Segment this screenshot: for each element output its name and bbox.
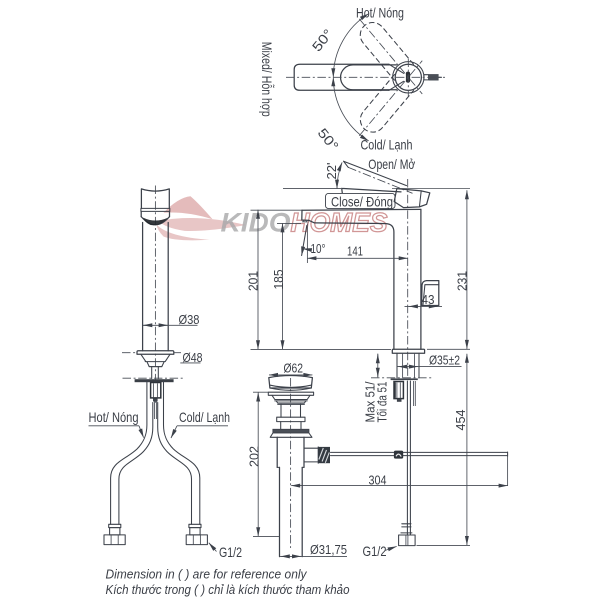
front view spout bowl arc — [141, 217, 169, 225]
threaded shank — [397, 353, 419, 378]
bottom extension line (base top) — [251, 348, 392, 350]
spout underside and column left edge — [309, 220, 394, 349]
svg-text:202: 202 — [248, 446, 262, 467]
svg-text:Close/ Đóng: Close/ Đóng — [331, 193, 393, 209]
front view short rod — [155, 402, 157, 420]
dimension 141 — [307, 245, 407, 259]
svg-text:Ø38: Ø38 — [179, 313, 200, 327]
front view head outline — [141, 189, 170, 217]
svg-text:10°: 10° — [311, 242, 326, 256]
10 deg leader arc — [303, 249, 307, 250]
angle arc 50 deg upper — [333, 14, 368, 78]
spout tip face — [302, 210, 309, 220]
counter deck line (side view) — [371, 377, 433, 379]
svg-text:G1/2: G1/2 — [363, 543, 387, 559]
svg-text:G1/2: G1/2 — [219, 544, 242, 560]
top view lever handle (plan, closed) — [341, 65, 397, 90]
top view handle rotated to cold (dashed, -50) — [350, 53, 432, 144]
drain side port — [304, 447, 330, 463]
top view valve cap circles — [393, 62, 424, 93]
aerator ticks — [302, 220, 309, 222]
horizontal drain lever rod — [331, 452, 508, 486]
faucet body top line / 201 extension — [302, 208, 421, 211]
hot hose (left) — [111, 381, 153, 525]
top view spout body (plan) — [294, 64, 403, 90]
drain centerline — [290, 378, 292, 548]
handle lower block 43 — [422, 281, 439, 306]
svg-text:Hot/ Nóng: Hot/ Nóng — [89, 409, 139, 425]
front view rod guide block — [153, 399, 158, 402]
10 deg spray line — [302, 226, 307, 256]
pull rod (side view) — [407, 381, 410, 535]
pull rod tip connector — [401, 524, 412, 535]
drain body — [277, 437, 304, 467]
top view centerline vertical — [407, 59, 409, 97]
drain bell — [270, 433, 312, 437]
dimension 454 — [417, 354, 471, 546]
svg-text:304: 304 — [369, 473, 387, 487]
svg-text:Cold/ Lạnh: Cold/ Lạnh — [179, 409, 230, 425]
svg-text:Mixed/ Hỗn hợp: Mixed/ Hỗn hợp — [259, 42, 275, 117]
under-deck lock nut (side view) — [394, 382, 403, 399]
svg-text:KIDO: KIDO — [221, 208, 291, 238]
pull rod end nut G1/2 (side view) — [399, 535, 416, 546]
svg-text:22': 22' — [325, 163, 339, 180]
extension line of closed lever top — [283, 188, 341, 190]
open lever top edge (solid) — [344, 161, 407, 185]
front view base skirt — [141, 354, 170, 366]
deck washer (side view) — [391, 378, 418, 380]
svg-text:Cold/ Lạnh: Cold/ Lạnh — [361, 137, 413, 153]
svg-text:185: 185 — [272, 269, 286, 289]
watermark logo swoosh — [157, 196, 247, 240]
svg-text:141: 141 — [347, 245, 363, 259]
cold hose end fittings — [186, 524, 207, 544]
front view base flange — [137, 351, 174, 355]
drain body step — [277, 466, 304, 468]
drain collar — [277, 417, 305, 421]
drain lock ring — [273, 429, 309, 433]
front view spout dark crescent — [143, 218, 168, 226]
drain tube lower — [280, 467, 303, 556]
svg-text:Ø35±2: Ø35±2 — [429, 353, 460, 367]
dimension dia 31,75 — [280, 543, 347, 557]
front view shank — [152, 367, 159, 379]
dimension 185 — [272, 223, 301, 349]
cold hose (right) — [158, 381, 200, 525]
drain pop-up cap — [269, 376, 313, 391]
dimension max 51 — [363, 354, 389, 423]
dimension 202 — [248, 392, 280, 536]
label dia 48 — [180, 351, 202, 365]
angle arc 50 deg lower — [333, 77, 368, 141]
drain cap flange — [268, 392, 313, 395]
svg-text:Ø62: Ø62 — [284, 362, 304, 376]
hot hose end fittings — [104, 524, 125, 544]
top view handle rotated to hot (dashed, +50) — [350, 11, 432, 102]
svg-text:43: 43 — [422, 293, 435, 307]
10 deg vertical reference — [306, 224, 308, 264]
svg-text:201: 201 — [247, 271, 261, 291]
dimension 304 — [291, 473, 507, 487]
front view body cylinder — [143, 223, 169, 351]
base flange (side view) — [392, 349, 424, 353]
rod guide block (side view) — [397, 399, 402, 402]
svg-text:Open/ Mở: Open/ Mở — [368, 156, 415, 172]
label Cold/Lanh (front) — [171, 409, 230, 438]
label G1/2 (front) — [209, 543, 242, 560]
faucet column centerline — [407, 179, 409, 380]
drain tube upper — [281, 422, 301, 430]
svg-text:Dimension in ( ) are for refer: Dimension in ( ) are for reference only — [106, 566, 308, 581]
dimension dia 62 — [269, 362, 312, 376]
label Hot/Nong (front) — [89, 409, 144, 438]
front view deck line — [123, 377, 185, 379]
close label box — [326, 193, 396, 208]
label G1/2 (side view) — [363, 543, 397, 559]
lever head — [394, 189, 430, 208]
top view centerline horizontal — [286, 76, 445, 78]
faucet column right edge — [420, 209, 422, 349]
top view aerator stub — [424, 74, 442, 80]
front view centerline — [154, 186, 156, 404]
drain neck — [281, 404, 301, 417]
rod clamp screw — [394, 451, 403, 459]
top view lever slot mark — [406, 72, 410, 83]
front view deck washer — [135, 379, 174, 382]
dimension 43 — [405, 293, 443, 307]
open lever axis (dash-dot) — [348, 167, 412, 193]
drain upper tapers — [272, 395, 310, 404]
dimension 231 — [392, 189, 470, 350]
svg-text:454: 454 — [454, 409, 468, 430]
svg-text:Tối đa 51: Tối đa 51 — [375, 381, 389, 422]
dimension dia 38 — [143, 313, 200, 327]
watermark logo text — [221, 208, 388, 238]
svg-text:Ø31,75: Ø31,75 — [310, 543, 347, 557]
flange level construction line — [122, 352, 181, 354]
hose lines below deck (side view) — [414, 381, 416, 406]
angle arc 22 deg — [337, 162, 342, 188]
front view under-deck nut — [151, 383, 161, 398]
svg-text:231: 231 — [456, 271, 470, 291]
svg-text:Kích thước trong ( ) chỉ là kí: Kích thước trong ( ) chỉ là kích thước t… — [106, 582, 350, 597]
svg-text:Ø48: Ø48 — [183, 351, 203, 365]
dimension dia 35 +-2 — [398, 353, 462, 367]
dimension 201 — [247, 210, 261, 350]
svg-text:Hot/ Nóng: Hot/ Nóng — [356, 5, 404, 21]
closed lever blade — [342, 188, 401, 193]
